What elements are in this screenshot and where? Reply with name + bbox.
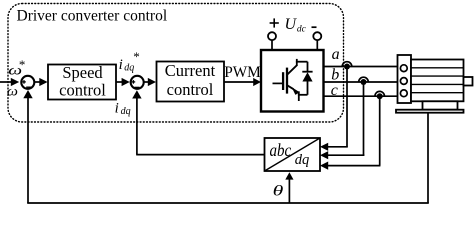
svg-text:a: a	[332, 46, 340, 63]
svg-text:abc: abc	[270, 139, 292, 160]
inverter box U1	[261, 50, 324, 112]
block: Speed control	[48, 65, 116, 100]
DC terminal +	[268, 32, 276, 40]
svg-text:Speed: Speed	[62, 63, 103, 82]
wire: bottom feedback bus	[27, 202, 429, 204]
svg-text:*: *	[133, 49, 140, 64]
svg-text:U: U	[285, 16, 298, 33]
node tap a	[344, 64, 350, 70]
motor M terminal box	[398, 55, 412, 103]
wire: S1 to speed control	[34, 81, 41, 83]
wire: omega* input	[0, 81, 14, 83]
svg-text:control: control	[59, 81, 106, 100]
wire: speed control to S2	[116, 81, 124, 83]
svg-text:*: *	[19, 57, 26, 72]
svg-text:i: i	[119, 57, 123, 73]
wire: omega feedback riser	[27, 98, 29, 204]
svg-text:Current: Current	[165, 61, 216, 80]
motor terminal 2	[400, 78, 407, 85]
node tap b	[361, 79, 367, 85]
wire: S2 to current control	[143, 81, 149, 83]
motor body	[411, 60, 464, 102]
motor pedestal	[423, 101, 458, 109]
transistor Q1 (IGBT)	[273, 59, 308, 101]
dotted boundary: driver converter control region	[8, 4, 344, 123]
svg-text:θ: θ	[273, 183, 284, 200]
phase wire b	[324, 81, 398, 83]
svg-text:i: i	[115, 100, 119, 116]
wire: tap b into abc/dq	[327, 154, 364, 156]
motor terminal 3	[400, 90, 407, 97]
svg-text:b: b	[331, 67, 339, 84]
diode D1 (antiparallel)	[302, 62, 312, 95]
wire: tap c into abc/dq	[327, 165, 380, 167]
svg-text:dc: dc	[297, 24, 307, 34]
block: Current control	[157, 62, 225, 102]
motor base plate	[396, 110, 464, 113]
svg-text:dq: dq	[121, 106, 131, 117]
motor shaft	[464, 77, 473, 86]
svg-text:Driver converter control: Driver converter control	[17, 8, 168, 25]
motor terminal 1	[400, 65, 407, 72]
phase wire c	[324, 95, 398, 97]
summing junction S2	[131, 76, 144, 89]
node tap c	[377, 93, 383, 99]
label + Udc -	[270, 22, 279, 24]
wire: sensor from motor	[427, 113, 429, 203]
svg-text:dq: dq	[295, 152, 310, 168]
svg-text:dq: dq	[124, 63, 134, 74]
DC terminal -	[313, 32, 321, 40]
svg-text:ω: ω	[7, 84, 18, 99]
svg-text:control: control	[167, 80, 214, 99]
phase wire a	[324, 66, 398, 68]
svg-text:PWM: PWM	[224, 64, 261, 81]
block: abc/dq transform	[265, 138, 321, 171]
wire: current control to inverter (PWM)	[224, 81, 254, 83]
wire: i_dq feedback from abc/dq to S2	[136, 154, 264, 156]
wire: tap a into abc/dq	[327, 146, 348, 148]
corner joins for taps	[363, 154, 366, 156]
wire: theta riser into abc/dq	[288, 179, 290, 203]
summing junction S1	[21, 76, 34, 89]
svg-text:c: c	[331, 82, 338, 99]
